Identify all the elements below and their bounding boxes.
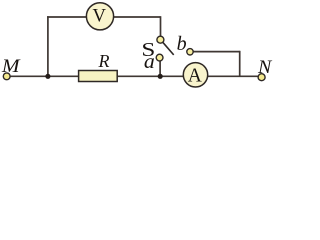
- wire: bottom main wire from M terminal to resistor: [10, 75, 79, 77]
- switch blade: [163, 42, 174, 55]
- terminal N circle: [258, 74, 265, 81]
- junction node below contact a: [158, 74, 163, 79]
- svg-text:R: R: [98, 51, 110, 71]
- svg-text:M: M: [1, 57, 22, 77]
- wire: bottom main wire from ammeter to N terminal: [207, 75, 258, 77]
- wire: bottom main wire from resistor to ammeter: [117, 75, 185, 77]
- voltmeter V circle: [86, 3, 113, 30]
- ammeter A circle: [183, 63, 207, 87]
- svg-text:V: V: [92, 6, 106, 27]
- terminal M circle: [3, 73, 10, 80]
- svg-text:A: A: [188, 66, 202, 87]
- svg-text:b: b: [177, 33, 187, 55]
- resistor R body: [79, 71, 118, 82]
- wire: right vertical from b-wire corner down to bottom wire: [239, 51, 241, 77]
- switch pivot contact circle: [157, 36, 164, 43]
- wire: left vertical branch from junction up to top rail: [47, 16, 49, 76]
- svg-text:a: a: [144, 51, 155, 73]
- switch contact a circle: [156, 54, 163, 61]
- wire: top rail from voltmeter to top-right corner: [112, 16, 161, 18]
- wire: vertical drop from top rail to switch pivot: [160, 16, 162, 36]
- junction node at left branch: [45, 74, 50, 79]
- switch contact b circle: [187, 49, 193, 55]
- wire: top rail from corner to voltmeter: [47, 16, 88, 18]
- svg-text:N: N: [257, 58, 273, 78]
- wire: stub from switch contact a down to bottom wire: [159, 60, 161, 76]
- wire: from switch contact b to right corner: [193, 51, 240, 53]
